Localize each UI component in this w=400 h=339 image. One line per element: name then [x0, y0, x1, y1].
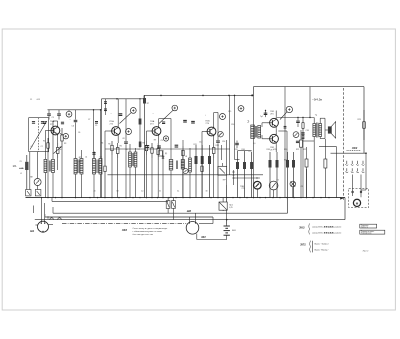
svg-text:R9: R9 — [154, 140, 156, 142]
svg-text:ЭК2: ЭК2 — [122, 228, 128, 232]
svg-text:1к: 1к — [60, 149, 62, 151]
coil W4 x190 — [189, 158, 192, 172]
resistor x325 outline — [324, 159, 327, 168]
IF filter2 Wa — [93, 159, 96, 175]
wire T2 emitter — [117, 137, 119, 143]
svg-text:2Т5: 2Т5 — [242, 188, 245, 190]
resistor string stage6 — [269, 152, 271, 198]
cap stage3 top — [162, 121, 165, 123]
osc coil L3 — [52, 159, 55, 172]
motor leads — [352, 175, 354, 197]
svg-text:R24: R24 — [284, 160, 287, 162]
wire x336.3 down — [335, 146, 337, 197]
IF transformer W3b — [181, 160, 184, 170]
motor M1 — [353, 199, 360, 206]
battery B1 — [224, 225, 230, 227]
svg-text:ПР: ПР — [223, 179, 226, 181]
wire T2 base — [105, 130, 109, 132]
svg-text:БВ1: БВ1 — [232, 230, 237, 232]
wire W-B corner right — [212, 217, 214, 224]
svg-text:R23: R23 — [358, 119, 361, 121]
connector Sh2 — [186, 222, 199, 235]
wire +rail mid — [144, 94, 254, 96]
wire bus corner down x341 — [344, 198, 346, 220]
cap above W2 — [95, 121, 98, 123]
testpoint plus stage1 — [66, 111, 72, 117]
svg-text:1,0: 1,0 — [141, 191, 143, 193]
osc coil L2 — [44, 159, 47, 172]
svg-text:R1: R1 — [43, 141, 45, 143]
record jack block — [218, 166, 227, 175]
svg-text:51: 51 — [159, 191, 161, 193]
wire rail y175 — [108, 174, 264, 176]
svg-text:Сохранять: Сохранять — [361, 225, 369, 227]
svg-text:+: + — [111, 113, 112, 115]
svg-text:R11: R11 — [194, 144, 197, 146]
transistor T6 — [270, 134, 279, 143]
wire L3 top — [52, 150, 54, 159]
svg-text:L5: L5 — [100, 157, 102, 159]
svg-text:C14: C14 — [222, 141, 225, 143]
cap C12 — [217, 113, 219, 141]
svg-text:C3: C3 — [52, 117, 54, 119]
resistor R17 x303 — [302, 120, 304, 123]
svg-text:R16: R16 — [242, 149, 245, 151]
svg-text:R20: R20 — [284, 149, 287, 151]
wire gang left down — [29, 152, 31, 190]
IF transformer W3a — [169, 160, 173, 171]
wire Sh1 corner B — [47, 216, 49, 219]
driver transformer W5 — [251, 125, 255, 139]
svg-text:С1: С1 — [30, 99, 32, 101]
wire W-C hop2 — [58, 218, 62, 220]
svg-text:П1А: П1А — [50, 120, 55, 123]
wire W-A corner — [52, 207, 54, 213]
wire pot down — [256, 189, 258, 198]
svg-text:Тр1: Тр1 — [248, 120, 250, 123]
svg-text:Выкл. “Запись”: Выкл. “Запись” — [315, 243, 330, 245]
wire W-D dashdot y223 — [62, 222, 186, 224]
svg-text:−9/4,5в: −9/4,5в — [312, 98, 322, 102]
svg-text:R17: R17 — [249, 151, 252, 153]
EK3 pins row2 — [346, 168, 348, 171]
svg-text:Д1: Д1 — [165, 153, 167, 155]
wire Sh1 corner A — [33, 206, 35, 214]
variable capacitor C1 — [32, 121, 35, 123]
resistor R7 x144.5 — [144, 95, 146, 197]
input jack VX — [34, 179, 41, 186]
svg-text:R8: R8 — [143, 143, 145, 145]
IF transformer W2b — [134, 152, 137, 167]
ferrite antenna coil L1 — [25, 162, 28, 170]
wire meter down — [273, 190, 275, 198]
svg-text:5,0: 5,0 — [253, 143, 255, 145]
resistor R14 x226.7 upper — [226, 140, 228, 198]
chassis dash line — [342, 88, 344, 200]
wire out y146.4 — [319, 145, 336, 147]
svg-text:0,25: 0,25 — [229, 207, 232, 209]
svg-text:Переход воспр.: Переход воспр. — [361, 233, 372, 235]
wire AGC rail y149 — [105, 148, 230, 150]
svg-text:R3: R3 — [64, 143, 66, 145]
svg-text:R18: R18 — [267, 149, 270, 151]
svg-text:R4: R4 — [101, 143, 103, 145]
svg-text:2Т4: 2Т4 — [206, 123, 210, 125]
cap C8 — [125, 99, 127, 141]
svg-text:ЭК3: ЭК3 — [352, 146, 358, 150]
cap under Gr1 — [296, 140, 299, 142]
wire T6 emitter join — [275, 145, 277, 152]
wire x285 long — [284, 87, 286, 198]
resistor R15 x233.5 — [233, 170, 235, 185]
wire W6b top lead — [320, 117, 325, 119]
svg-text:C5: C5 — [95, 125, 97, 127]
svg-text:2Т2: 2Т2 — [110, 124, 114, 126]
svg-text:ВХ: ВХ — [30, 177, 33, 179]
IFT2 core — [131, 153, 133, 166]
cap C5 on rail — [58, 110, 60, 113]
IF filter2 Wb — [99, 159, 102, 175]
IFT2b core — [96, 160, 98, 174]
svg-text:L7: L7 — [138, 149, 140, 151]
svg-text:5,1: 5,1 — [177, 191, 179, 193]
IF filter1 Wa — [74, 159, 77, 175]
svg-text:ЭК2: ЭК2 — [201, 236, 206, 239]
svg-text:П1А: П1А — [150, 120, 155, 123]
wire T3 collector — [158, 119, 160, 126]
trim resistor R3 — [61, 128, 63, 135]
svg-text:C8: C8 — [122, 138, 124, 140]
svg-text:20: 20 — [94, 191, 96, 193]
cap C15 — [265, 111, 267, 118]
resistor string out1 — [287, 152, 289, 191]
wire T1 emitter down — [57, 136, 59, 143]
cap C11 dark — [175, 144, 179, 146]
resistor string stage5 — [237, 151, 239, 198]
wire W-B y217 — [45, 216, 213, 218]
node bus junctions — [41, 197, 42, 198]
svg-text:68: 68 — [117, 191, 119, 193]
svg-text:2Т6: 2Т6 — [270, 113, 274, 115]
wire L2 bottom — [44, 173, 46, 198]
svg-text:C2: C2 — [41, 146, 43, 148]
speaker Gr1 cone — [331, 122, 335, 139]
svg-text:С6: С6 — [72, 126, 74, 128]
wire x97.5 down — [100, 110, 102, 159]
testpoint plus out — [286, 106, 292, 112]
wire fuse to battery — [226, 210, 228, 224]
diode D2 circle — [218, 131, 224, 137]
volume pot T7 bold circle — [253, 181, 261, 189]
svg-text:был том дел сеть ток: был том дел сеть ток — [133, 234, 153, 236]
svg-text:C15: C15 — [228, 111, 231, 113]
svg-text:М: М — [356, 201, 359, 205]
svg-text:4ѥ1: 4ѥ1 — [79, 161, 82, 163]
svg-text:L1: L1 — [20, 173, 22, 175]
resistor R11 x183 — [182, 146, 184, 150]
wire T6 base — [262, 138, 267, 140]
wire +rail stage2-3 — [102, 98, 145, 100]
trimmer R16 — [290, 181, 296, 187]
wire T4 emitter — [213, 137, 215, 143]
IFT3 core — [175, 161, 177, 170]
svg-text:R13: R13 — [216, 145, 219, 147]
svg-text:Выкл. “Воспр.”: Выкл. “Воспр.” — [315, 250, 329, 252]
wire riser x101.5 — [101, 99, 103, 110]
node rail junctions — [160, 95, 162, 97]
wire T5 base — [262, 122, 267, 124]
svg-text:L8: L8 — [185, 156, 187, 158]
wire y153 to EK3 — [331, 152, 367, 154]
cap C4 on rail — [48, 110, 50, 113]
wire T3 emitter — [158, 137, 160, 143]
wire +rail top right — [254, 86, 365, 88]
EK3 pins row1 — [346, 161, 348, 164]
svg-text:+: + — [205, 115, 206, 117]
cap x303 mid — [301, 132, 304, 134]
driver transformer core — [254, 126, 256, 138]
wire x226.7 through — [226, 185, 228, 202]
transistor T3 — [152, 127, 161, 136]
resistor R12 — [201, 140, 203, 166]
svg-text:Тр: Тр — [315, 114, 317, 116]
cap C10 dark — [157, 145, 161, 147]
svg-text:Тр1: Тр1 — [260, 116, 263, 118]
svg-text:C12: C12 — [199, 142, 202, 144]
testpoint plus stage2 — [130, 108, 136, 114]
wire f1a bottom — [75, 174, 77, 198]
testpoint plus T4b — [238, 106, 244, 112]
emitter resistor R10 — [157, 143, 159, 149]
wire speaker terminal — [324, 118, 326, 138]
wire T1 collector up — [57, 121, 59, 125]
svg-text:R5: R5 — [108, 144, 110, 146]
testpoint circle b — [183, 168, 188, 173]
svg-text:ЭП1: ЭП1 — [300, 243, 306, 247]
motor dashed box — [349, 189, 369, 208]
svg-text:C18: C18 — [306, 130, 309, 132]
resistor R9 — [151, 143, 153, 148]
resistor string out2 — [300, 140, 303, 147]
resistor R18 x306.5 lead — [306, 169, 308, 198]
emitter circle T2 — [126, 129, 132, 135]
svg-text:C9: C9 — [161, 140, 163, 142]
testpoint plus stage3 — [172, 105, 178, 111]
svg-text:L4: L4 — [85, 157, 87, 159]
svg-text:C1: C1 — [31, 146, 33, 148]
transistor T2 — [112, 127, 121, 136]
wire Sh2 pins up — [188, 217, 190, 220]
wire W0 y201.4 — [52, 200, 168, 202]
testpoint plus stage1b — [63, 134, 68, 139]
fuse Pr1 — [219, 202, 227, 210]
resistor R5 — [111, 141, 113, 145]
resistor R4 — [104, 140, 106, 166]
wire W0 corner — [51, 198, 53, 202]
wire x101.5 long down — [101, 110, 103, 198]
svg-text:C6: C6 — [78, 132, 80, 134]
wire W-A riser x287.5 — [287, 191, 289, 214]
wire f2a bottom — [93, 174, 95, 198]
svg-text:R21: R21 — [296, 149, 299, 151]
wire W-A y213.2 — [53, 212, 288, 214]
wire fuse top — [222, 198, 224, 202]
svg-text:2Т1: 2Т1 — [50, 124, 54, 126]
svg-text:R15: R15 — [235, 149, 238, 151]
cap dark x44.5 — [43, 121, 46, 123]
wire W-C y219.6 — [35, 219, 345, 221]
cap dark x120 — [119, 113, 123, 115]
svg-text:R7: R7 — [147, 103, 149, 105]
resistor trio stage4base — [195, 145, 197, 198]
wire ground bus — [26, 197, 346, 199]
wire T5 collector — [275, 111, 277, 117]
output transformer W6a — [313, 124, 316, 137]
wire x140 down — [139, 99, 141, 148]
speaker Gr1 driver — [328, 126, 332, 133]
cap C16 x298 — [297, 118, 299, 121]
meter V1 — [269, 181, 278, 190]
svg-text:П1А: П1А — [110, 120, 115, 123]
EK3 note box1 — [360, 224, 377, 228]
tuning gang box — [29, 118, 49, 152]
svg-text:В В а В В: В В а В В — [324, 226, 334, 228]
cap C13 — [235, 142, 239, 144]
wire W-B corner left — [44, 214, 46, 217]
wire battery to Sh2 — [197, 239, 227, 241]
emitter resistor R2 — [57, 143, 59, 148]
diode D1 — [162, 150, 164, 198]
trimmer pad2 — [35, 190, 41, 196]
svg-text:4-15: 4-15 — [37, 99, 40, 101]
wire Sh1 drop — [40, 198, 42, 220]
wire T2 collector — [117, 99, 119, 125]
wire primary top — [277, 117, 314, 119]
svg-text:Запись на: Запись на — [361, 227, 368, 229]
emitter resistor R6 — [117, 143, 119, 148]
wire right rail down — [363, 87, 365, 154]
jack contact K1 — [166, 201, 170, 209]
wire f1b bottom — [81, 174, 83, 198]
emitter resistor R13 — [213, 143, 215, 148]
svg-text:Переход на запись: Переход на запись — [361, 231, 374, 233]
speaker circle Gr1 — [293, 132, 299, 138]
wire T4 collector — [213, 113, 215, 126]
wire x218 pair down — [229, 95, 231, 174]
svg-text:ЭК3: ЭК3 — [299, 226, 305, 230]
EK3 note box2 — [360, 230, 385, 234]
wire x90 down — [93, 110, 95, 152]
wire T4 base — [202, 131, 205, 133]
resistor R8 — [146, 141, 148, 145]
cap dark x185 — [183, 119, 187, 121]
transistor T4 — [207, 127, 216, 136]
svg-text:с обмотками катушек на точки: с обмотками катушек на точки — [133, 231, 163, 233]
wire VX down — [37, 186, 39, 190]
svg-text:C7: C7 — [88, 119, 90, 121]
svg-text:C16: C16 — [231, 124, 234, 126]
svg-text:+: + — [153, 113, 154, 115]
wire tall x253.5 down — [253, 95, 255, 197]
wire W6b bottom lead — [319, 137, 321, 139]
wire trimmer down — [292, 187, 294, 198]
svg-text:Лист 2: Лист 2 — [363, 250, 369, 252]
wire L2 top — [44, 156, 46, 159]
IF transformer W2a — [129, 152, 132, 167]
OT core — [316, 123, 318, 138]
bias resistor R1 — [47, 138, 49, 143]
svg-text:L6: L6 — [126, 149, 128, 151]
bus end arrow — [340, 197, 343, 200]
svg-text:Ш2: Ш2 — [187, 209, 192, 213]
variable capacitor C2 — [41, 121, 44, 123]
resistor R17b x303 cap — [302, 135, 305, 137]
wire battery leads — [226, 220, 228, 226]
wire W-C hop1 — [50, 218, 54, 220]
wire +rail stage1 — [48, 109, 102, 111]
cap dark x193 — [191, 120, 195, 122]
cap C9 dark — [146, 145, 150, 147]
transistor T5 — [270, 118, 279, 127]
wire f2b bottom — [100, 174, 102, 198]
cap dark x62.5 — [61, 121, 64, 123]
wire T1 base — [45, 130, 48, 132]
svg-text:Ш1: Ш1 — [30, 229, 35, 233]
wire out mid — [278, 130, 287, 132]
svg-text:МА: МА — [13, 165, 17, 168]
svg-text:В В в В В: В В в В В — [324, 232, 334, 234]
coil core lines — [48, 161, 50, 172]
wire riser x144 — [143, 95, 145, 98]
wire x310 from rail — [309, 87, 311, 118]
transistor T1 — [51, 126, 60, 135]
wire x37.6 vertical — [37, 152, 39, 179]
jack contact K2 — [172, 201, 176, 209]
node battery tap — [226, 219, 228, 221]
wire W6a bottom — [313, 137, 315, 198]
wire L3 bottom — [52, 173, 54, 198]
svg-text:30: 30 — [206, 191, 208, 193]
svg-text:R19: R19 — [274, 149, 277, 151]
svg-text:V1: V1 — [276, 179, 278, 181]
wire EK3 right drop — [365, 153, 367, 190]
svg-text:R6: R6 — [120, 146, 122, 148]
testpoint circle c — [163, 136, 168, 141]
IF filter1 Wb — [80, 159, 83, 175]
connector Sh1 — [38, 221, 49, 232]
svg-text:Л1: Л1 — [20, 161, 22, 163]
trimmer pad1 — [26, 190, 31, 196]
wire riser x253.5 — [253, 87, 255, 96]
svg-text:2Т3: 2Т3 — [150, 124, 154, 126]
svg-text:Снять плату и сдать в специа: Снять плату и сдать в специальную — [133, 228, 168, 230]
svg-text:+: + — [70, 119, 71, 121]
coupling cap C6 — [75, 110, 77, 120]
resistor R19 right rail — [363, 110, 365, 122]
svg-text:R22: R22 — [303, 149, 306, 151]
IFT1 core — [77, 160, 79, 174]
wire rail y178 — [234, 177, 261, 179]
output transformer W6b — [319, 124, 322, 137]
testpoint plus T4 — [220, 114, 226, 120]
wire T3 base — [147, 130, 150, 132]
